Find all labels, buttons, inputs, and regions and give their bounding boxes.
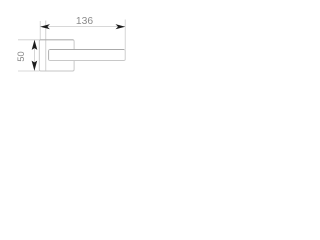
- extension line top of 50: [18, 39, 39, 41]
- svg-text:136: 136: [76, 16, 93, 27]
- rose top edge accent: [40, 39, 74, 41]
- extension line right of 136: [124, 20, 126, 50]
- lever left edge accent: [48, 51, 50, 60]
- dimension line 50: [34, 40, 36, 71]
- svg-text:50: 50: [16, 51, 26, 61]
- lever bar: [49, 50, 126, 61]
- arrow down of 50: [32, 61, 38, 71]
- extension line left of 136: [39, 21, 41, 39]
- arrow right of 136: [116, 24, 126, 29]
- dimension line 136: [40, 26, 125, 28]
- arrow up of 50: [32, 40, 38, 50]
- rose square plate: [39, 40, 74, 71]
- arrow left of 136: [40, 24, 50, 29]
- rose inner edge line: [45, 21, 47, 71]
- lever top edge accent: [50, 49, 125, 51]
- extension line bottom of 50: [18, 70, 39, 72]
